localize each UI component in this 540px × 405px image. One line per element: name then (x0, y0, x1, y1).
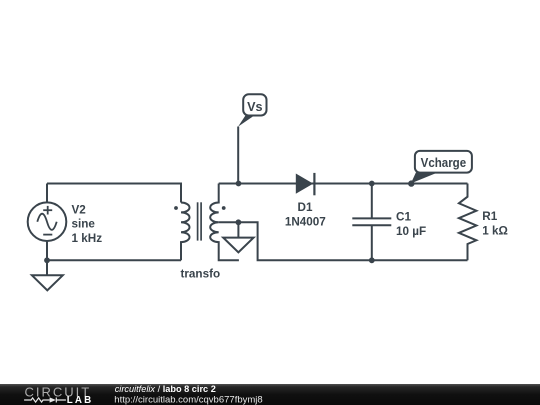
svg-text:C1: C1 (396, 211, 411, 224)
svg-text:1 kHz: 1 kHz (72, 232, 103, 245)
svg-text:sine: sine (72, 218, 96, 231)
svg-text:transfo: transfo (180, 267, 220, 280)
svg-text:Vcharge: Vcharge (421, 156, 467, 170)
svg-text:1N4007: 1N4007 (285, 215, 326, 228)
svg-text:V2: V2 (72, 203, 87, 216)
svg-text:circuitfelix / labo 8 circ 2: circuitfelix / labo 8 circ 2 (115, 384, 216, 394)
svg-text:10 µF: 10 µF (396, 225, 426, 238)
svg-text:1 kΩ: 1 kΩ (482, 225, 508, 238)
svg-text:D1: D1 (298, 201, 313, 214)
svg-text:Vs: Vs (247, 100, 262, 114)
svg-text:http://circuitlab.com/cqvb677f: http://circuitlab.com/cqvb677fbymj8 (114, 394, 262, 405)
svg-text:R1: R1 (482, 210, 497, 223)
svg-text:LAB: LAB (67, 395, 94, 405)
